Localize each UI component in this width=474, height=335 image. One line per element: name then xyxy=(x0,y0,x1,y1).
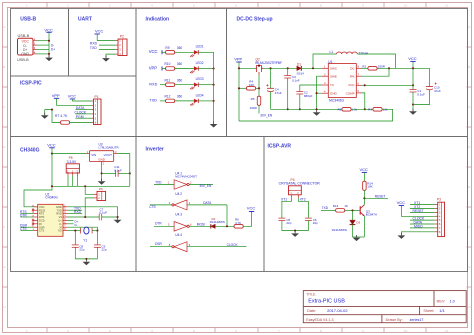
wire L1 riser left xyxy=(313,54,337,68)
wire row1 right xyxy=(198,51,213,53)
junction crystal right xyxy=(96,230,98,232)
junction row3 xyxy=(213,84,215,86)
wire VCC to U3 VIN xyxy=(52,153,87,155)
wire VCC vertical xyxy=(96,34,98,41)
wire R14 to collector node xyxy=(363,190,365,198)
wire ground branch to R7 xyxy=(45,110,61,123)
svg-text:TITLE:: TITLE: xyxy=(306,293,316,297)
connector P3 pin numbers xyxy=(439,203,441,234)
IC U2 pin stubs right xyxy=(63,207,67,231)
svg-text:R3: R3 xyxy=(368,107,372,111)
connector P4 number divider xyxy=(289,190,302,192)
section box USB-B xyxy=(11,9,69,77)
LED3 xyxy=(190,83,198,90)
wire row2 right xyxy=(198,68,213,70)
section box UART xyxy=(69,9,137,77)
wire emitter down xyxy=(363,216,365,237)
connector P5 body divider xyxy=(66,168,79,170)
svg-text:VCC: VCC xyxy=(360,167,369,172)
junction VCC node top xyxy=(412,67,414,69)
svg-text:MC34063: MC34063 xyxy=(329,98,344,102)
power flag VCC (USB-B) xyxy=(44,28,53,33)
svg-text:RXD: RXD xyxy=(90,42,98,46)
section box ICSP-AVR xyxy=(264,137,468,272)
IC U2 pin names left column xyxy=(39,205,46,233)
svg-text:360: 360 xyxy=(177,95,183,99)
svg-text:RXD: RXD xyxy=(56,212,62,216)
wire C5 bottom xyxy=(281,221,283,231)
connector P6 body xyxy=(97,191,106,200)
regulator U3 pin numbers xyxy=(87,150,117,165)
connector P5 pin stubs xyxy=(68,173,77,176)
capacitor C11 body xyxy=(116,170,119,177)
connector P6 pin stubs xyxy=(94,194,97,198)
capacitor C3 wire bottom xyxy=(287,78,289,109)
wire VCC flag drop xyxy=(412,61,414,89)
svg-text:D1: D1 xyxy=(297,62,301,66)
wire row4 mid xyxy=(175,100,194,102)
resistor R10 body xyxy=(166,67,175,71)
svg-text:COMP: COMP xyxy=(346,91,355,95)
wire U4.3 output xyxy=(189,225,211,227)
svg-text:L1: L1 xyxy=(330,50,334,54)
wire P5 pins to select line xyxy=(68,176,77,187)
wire C7 right to ground xyxy=(102,216,118,218)
border tick marks left and right xyxy=(3,47,472,287)
svg-text:VPP: VPP xyxy=(149,65,158,70)
svg-text:TXD: TXD xyxy=(90,46,97,50)
svg-text:IPK: IPK xyxy=(350,74,355,78)
junction C10 return xyxy=(412,103,414,105)
svg-text:REV:: REV: xyxy=(437,299,446,303)
wire row4 GND to ground xyxy=(106,54,115,57)
svg-text:A: A xyxy=(468,25,470,29)
wire DSR stub xyxy=(21,226,34,228)
gate U4.4 bubble xyxy=(172,246,174,248)
wire emitter/D3 ground bus xyxy=(353,236,365,238)
svg-text:22p: 22p xyxy=(286,221,291,225)
svg-text:1N4148WS: 1N4148WS xyxy=(210,220,225,224)
svg-text:Extra-PIC USB: Extra-PIC USB xyxy=(308,299,345,305)
junction pin1/VCC xyxy=(48,40,50,42)
resistor R5 body xyxy=(257,96,261,105)
svg-text:USB-B: USB-B xyxy=(17,58,29,62)
ground (ICSP-PIC) xyxy=(41,113,49,119)
title block frame xyxy=(303,291,466,323)
wire XO to crystal left xyxy=(67,230,81,232)
capacitor C4 wire top xyxy=(270,68,272,88)
gate U4.1 bubble xyxy=(187,183,189,185)
svg-text:Sheet:: Sheet: xyxy=(423,309,434,313)
svg-text:LED2: LED2 xyxy=(196,61,204,65)
wire R7 to P1 pin6 xyxy=(70,122,92,124)
svg-text:30V_EN: 30V_EN xyxy=(199,184,212,188)
svg-text:H: H xyxy=(3,305,5,309)
connector P4 pin numbers xyxy=(290,192,299,195)
wire pin2 row D- xyxy=(37,44,50,46)
svg-text:3.3-5V: 3.3-5V xyxy=(67,160,77,164)
border tick marks bottom xyxy=(47,328,426,333)
section box Indication xyxy=(136,9,227,137)
resistor R11 body xyxy=(166,83,175,87)
connector P5 body xyxy=(66,164,79,173)
ground (Indication) xyxy=(210,121,218,127)
capacitor C10 polarized body xyxy=(426,82,437,89)
svg-text:11: 11 xyxy=(445,3,448,7)
connector J1 pin numbers 1-4 xyxy=(34,37,36,54)
svg-text:DTR: DTR xyxy=(155,222,162,226)
connector P2 pin stubs xyxy=(115,41,118,55)
wire top rail Q2 to D1 xyxy=(263,67,297,69)
ground (DC-DC) xyxy=(313,110,321,116)
connector P6 number divider xyxy=(101,191,103,200)
wire collector up xyxy=(363,198,365,205)
gate U4.2 triangle pointing left xyxy=(174,200,187,210)
svg-text:RI: RI xyxy=(39,222,42,226)
power flag VCC (Indication row1) xyxy=(149,49,162,54)
wire TXD stub (U2) xyxy=(67,209,82,211)
connector P6 pin numbers xyxy=(98,193,100,201)
power flag VCC (ICSP-PIC) xyxy=(68,94,77,99)
svg-text:E: E xyxy=(468,185,470,189)
junction bus at SWE/GND xyxy=(316,108,318,110)
wire R13 to base xyxy=(345,209,360,211)
resistor R1 body xyxy=(342,108,351,112)
svg-text:CRYSATAL CONNECTOR: CRYSATAL CONNECTOR xyxy=(279,182,321,186)
wire TC to C2 xyxy=(300,85,322,92)
svg-text:R2: R2 xyxy=(362,64,366,68)
svg-text:D-: D- xyxy=(51,43,54,47)
svg-text:LED4: LED4 xyxy=(196,93,204,97)
crystal Y1 plates xyxy=(81,228,93,234)
svg-text:47uF: 47uF xyxy=(434,89,441,93)
connector P1 pin numbers xyxy=(95,99,97,125)
svg-text:CH340G: CH340G xyxy=(45,196,58,200)
junction base/D3 xyxy=(351,209,353,211)
crystal Y1 body ellipse xyxy=(84,227,89,234)
capacitor C8 body xyxy=(72,245,79,247)
section box DC-DC Step-up xyxy=(227,9,468,137)
junction row2 xyxy=(213,67,215,69)
wire VPP vertical left rail xyxy=(238,62,240,121)
svg-text:0.1uF: 0.1uF xyxy=(292,78,300,82)
IC U2 pin names right column xyxy=(56,205,62,233)
capacitor C10 wire bottom return xyxy=(413,90,430,105)
svg-text:DSR: DSR xyxy=(155,242,162,246)
wire V3 row to C7 xyxy=(67,216,99,218)
wire pin1 row xyxy=(37,40,50,42)
power flag VCC (DC-DC out) xyxy=(408,56,417,61)
junction select line at P6 xyxy=(84,185,86,187)
connector P2 number divider xyxy=(121,39,123,56)
section box Inverter xyxy=(136,137,264,272)
capacitor C3 body xyxy=(284,76,291,79)
wire R4 left xyxy=(239,87,246,89)
section box CH340G xyxy=(11,137,137,272)
wire TXD to R13 xyxy=(321,209,336,211)
svg-text:250R: 250R xyxy=(378,64,386,68)
transistor Q2 MOSFET body xyxy=(256,65,264,75)
svg-text:B: B xyxy=(468,65,470,69)
svg-text:22p: 22p xyxy=(313,221,318,225)
svg-text:V3: V3 xyxy=(59,215,63,219)
gate U4.3 bubble xyxy=(187,225,189,227)
svg-text:VCC: VCC xyxy=(348,83,355,87)
wire row3 right xyxy=(198,84,213,86)
wire R2 to VCC node xyxy=(377,67,429,69)
no-connect marks left unused pins xyxy=(32,209,34,211)
svg-text:XO: XO xyxy=(58,229,62,233)
svg-text:2017-04-02: 2017-04-02 xyxy=(327,308,348,313)
power flag VCC (UART) xyxy=(95,29,104,34)
ground (C7) xyxy=(114,217,122,223)
svg-text:BC847A: BC847A xyxy=(366,213,377,217)
wire C1 bottom to ground xyxy=(412,92,414,111)
capacitor C10 branch wire top xyxy=(429,68,431,86)
svg-text:U+: U+ xyxy=(58,219,62,223)
connector P2 pin numbers xyxy=(119,39,121,57)
svg-text:U-: U- xyxy=(59,222,62,226)
connector P5 pin numbers xyxy=(67,170,78,174)
svg-text:360: 360 xyxy=(177,62,183,66)
svg-text:U4.3: U4.3 xyxy=(175,213,182,217)
wire row1 to P2 pin1 xyxy=(97,40,115,42)
svg-text:R13: R13 xyxy=(333,204,339,208)
connector P3 pin stubs xyxy=(435,205,438,232)
svg-text:DCD: DCD xyxy=(39,219,45,223)
svg-text:R232: R232 xyxy=(39,208,46,212)
wire CLOCK stub (P3) xyxy=(410,219,435,221)
wire XT1 stub (P3) xyxy=(410,204,435,206)
svg-text:VCC: VCC xyxy=(408,56,417,61)
svg-text:GND: GND xyxy=(21,52,29,56)
resistor R4 body xyxy=(246,87,255,91)
wire R4 right to gate xyxy=(256,87,259,89)
svg-text:10: 10 xyxy=(404,3,408,7)
svg-text:ICSP-AVR: ICSP-AVR xyxy=(268,143,292,149)
svg-text:U4.4: U4.4 xyxy=(175,233,182,237)
wire row2 mid xyxy=(175,68,194,70)
svg-text:H: H xyxy=(468,305,470,309)
wire C6 bottom xyxy=(307,221,309,231)
wire U4.4 output to DSR xyxy=(150,246,172,248)
svg-text:R7 4.7K: R7 4.7K xyxy=(55,114,68,118)
wire RESET stub xyxy=(364,197,388,199)
capacitor C5 body xyxy=(278,218,285,220)
svg-text:B: B xyxy=(3,65,5,69)
svg-text:P2: P2 xyxy=(120,35,124,39)
wire D2 to R6 xyxy=(215,225,235,227)
junction VCC node xyxy=(51,153,53,155)
transistor Q3 body NPN xyxy=(360,205,364,216)
svg-text:D+: D+ xyxy=(51,48,55,52)
capacitor C2 wire bottom xyxy=(299,94,301,109)
capacitor C11 wires xyxy=(102,172,130,174)
power flag VCC (P3) xyxy=(397,200,406,205)
svg-text:10K: 10K xyxy=(367,185,372,189)
wire MISO stub (P3) xyxy=(410,227,435,229)
svg-text:TXD: TXD xyxy=(155,181,162,185)
ground (P4 caps) xyxy=(291,231,299,237)
svg-text:UART: UART xyxy=(78,16,92,22)
capacitor C3 wire top xyxy=(287,68,289,75)
IC U1 pin stubs left xyxy=(322,68,328,93)
svg-text:R1: R1 xyxy=(338,107,342,111)
resistor R3 body xyxy=(373,108,382,112)
wire XI to crystal right xyxy=(67,227,97,230)
wire VPP to P1 pin2 xyxy=(57,98,92,105)
junction R7/ground xyxy=(51,109,53,111)
wire VCC pin 6 row xyxy=(362,84,413,86)
svg-text:22p: 22p xyxy=(102,248,107,252)
wire U2 GND pin to ground xyxy=(67,207,118,217)
wire RESET stub (P3) xyxy=(410,211,435,213)
LED4 xyxy=(190,99,198,106)
junction top rail at VPP xyxy=(238,67,240,69)
wire C9 bottom xyxy=(96,247,98,259)
resistor R6 body xyxy=(234,225,243,229)
wire PGM stub xyxy=(76,117,92,119)
svg-text:A: A xyxy=(3,25,5,29)
IC U2 pin stubs left xyxy=(34,207,38,231)
wire DATA stub xyxy=(76,109,92,111)
svg-text:TXD: TXD xyxy=(149,99,157,103)
connector P2 body xyxy=(118,39,127,56)
junction on VCC pin row xyxy=(364,84,366,86)
svg-text:Inverter: Inverter xyxy=(146,146,164,152)
ground (U3) xyxy=(98,179,106,185)
border tick marks top xyxy=(47,3,426,8)
svg-text:680pF: 680pF xyxy=(304,94,313,98)
wire VCC to P1 pin1 xyxy=(73,99,92,101)
svg-text:MOSI: MOSI xyxy=(197,223,205,227)
section box ICSP-PIC xyxy=(11,76,137,137)
svg-text:VCC: VCC xyxy=(149,49,158,54)
svg-text:Date:: Date: xyxy=(307,309,316,313)
wire U4.1 input xyxy=(154,184,174,186)
wire P6 pin2 to V3 xyxy=(85,198,94,217)
capacitor C9 body xyxy=(94,245,101,247)
junction GND pin xyxy=(316,92,318,94)
svg-text:0.1uF: 0.1uF xyxy=(417,92,425,96)
junction COMP/feedback xyxy=(364,108,366,110)
resistor R9 body xyxy=(166,51,175,55)
wire D1 to SWC xyxy=(301,67,322,69)
wire R3 to right loop xyxy=(239,109,393,121)
IC U2 pin numbers left xyxy=(32,205,35,231)
svg-text:P6: P6 xyxy=(99,187,103,191)
svg-text:MC74VHC04DT: MC74VHC04DT xyxy=(175,175,197,179)
svg-text:F: F xyxy=(468,225,470,229)
wire IPK loop xyxy=(362,68,389,76)
svg-text:360: 360 xyxy=(177,46,183,50)
wire CLOCK stub xyxy=(76,113,92,115)
wire row4 left xyxy=(160,100,175,102)
wire SWE/GND to ground rail vertical xyxy=(317,76,322,109)
svg-text:P3: P3 xyxy=(437,198,441,202)
svg-text:SWC: SWC xyxy=(330,67,338,71)
diode D3 body pointing down xyxy=(350,220,356,225)
resistor R13 body xyxy=(336,209,345,213)
svg-text:XI: XI xyxy=(59,225,62,229)
gate U4.1 triangle xyxy=(174,180,187,190)
svg-text:10: 10 xyxy=(404,329,408,333)
LED1 xyxy=(190,50,198,57)
power flag VPP (ICSP-PIC) xyxy=(52,93,60,98)
svg-text:R12: R12 xyxy=(165,95,171,99)
wire row4 right xyxy=(198,100,213,102)
svg-text:RXD: RXD xyxy=(149,83,157,87)
connector P4 body xyxy=(289,186,302,195)
junction RESET node xyxy=(363,197,365,199)
svg-text:F: F xyxy=(3,225,5,229)
junction select line at VCC branch xyxy=(51,185,53,187)
power flag VCC (AVR) xyxy=(360,167,369,172)
svg-text:GND: GND xyxy=(56,205,62,209)
power flag VPP (DC-DC) xyxy=(234,57,242,62)
junction VOUT node xyxy=(129,172,131,174)
gate U4.4 triangle pointing left xyxy=(174,242,187,252)
svg-text:EasyEDA V4.1.3: EasyEDA V4.1.3 xyxy=(306,318,333,322)
wire VCC branch down to U2 xyxy=(24,154,52,207)
wire VCC flag drop xyxy=(51,148,53,154)
svg-text:CTS: CTS xyxy=(39,229,44,233)
junction R4 left on VPP rail xyxy=(238,87,240,89)
junction pin4/GND xyxy=(48,53,50,55)
wire row1 left xyxy=(162,51,175,53)
ground (UART) xyxy=(102,56,110,62)
svg-text:VCC: VCC xyxy=(68,94,77,99)
resistor R12 body xyxy=(166,99,175,103)
wire select line horizontal xyxy=(52,185,130,187)
junction V3/P6 xyxy=(84,216,86,218)
junction row4 xyxy=(213,100,215,102)
wire ground stem xyxy=(44,110,46,115)
wire DATA drop to diode node xyxy=(226,205,228,226)
svg-text:VCC: VCC xyxy=(47,142,56,147)
junction gate/R4 xyxy=(258,87,260,89)
wire D3 bottom xyxy=(352,225,354,237)
wire D3 branch down xyxy=(352,210,354,220)
connector P1 body xyxy=(94,99,102,125)
diode D2 body pointing left xyxy=(211,224,216,228)
wire VCC to R14 xyxy=(363,172,365,181)
svg-text:L78L33ABUTR: L78L33ABUTR xyxy=(99,146,120,150)
wire U3 GND down xyxy=(101,165,103,181)
capacitor C4 wire bottom xyxy=(270,92,272,110)
wire Q2 gate vertical xyxy=(258,75,260,97)
wire DC pin to R2 xyxy=(362,67,368,69)
junction U3 GND xyxy=(101,172,103,174)
wire CTS stub xyxy=(21,230,34,232)
wire U+ stub xyxy=(67,219,74,221)
wire DTR stub xyxy=(21,216,34,218)
gate U4.3 triangle xyxy=(174,222,187,232)
svg-text:1.0: 1.0 xyxy=(450,299,455,303)
ground (P3) xyxy=(398,233,406,239)
wire P4 pin2 to XT2 leg xyxy=(298,198,308,218)
wire VCC to P3 pin4 xyxy=(401,205,434,216)
svg-text:30V_EN: 30V_EN xyxy=(260,113,273,117)
svg-text:GND: GND xyxy=(330,91,338,95)
IC U2 body xyxy=(38,204,63,236)
junction C3 top xyxy=(287,67,289,69)
junction output node xyxy=(388,67,390,69)
svg-text:100R: 100R xyxy=(250,106,258,110)
svg-text:360: 360 xyxy=(177,78,183,82)
svg-text:ICSP-PIC: ICSP-PIC xyxy=(20,80,42,86)
IC U1 pin numbers right xyxy=(358,65,360,94)
